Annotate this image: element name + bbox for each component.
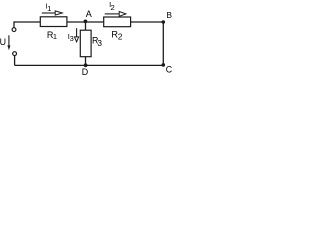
terminal circle lower	[13, 52, 17, 56]
resistor R1	[40, 17, 67, 27]
wire top-right segment	[131, 21, 164, 23]
node D junction dot	[84, 63, 88, 67]
node B junction dot	[162, 20, 166, 24]
wire top-middle segment	[67, 21, 104, 23]
terminal circle upper	[12, 28, 16, 32]
svg-text:C: C	[166, 65, 173, 75]
current arrow I3	[75, 28, 79, 42]
resistor R2	[104, 17, 131, 27]
svg-text:3: 3	[97, 38, 102, 48]
node C junction dot	[162, 63, 166, 67]
wire right vertical	[162, 22, 164, 65]
current arrow I1	[42, 11, 63, 15]
wire top-left segment	[14, 21, 40, 23]
wire bottom	[15, 64, 164, 66]
wire left lower stub	[14, 56, 16, 66]
wire node A to R3	[85, 22, 87, 30]
wire R3 to node D	[85, 57, 87, 66]
svg-text:1: 1	[53, 32, 57, 41]
svg-text:2: 2	[111, 3, 115, 12]
current arrow I2	[105, 12, 126, 17]
wire left upper stub	[13, 21, 15, 27]
svg-text:1: 1	[47, 4, 51, 13]
svg-text:A: A	[86, 9, 92, 19]
svg-text:U: U	[0, 37, 6, 47]
svg-text:B: B	[167, 11, 173, 20]
svg-text:3: 3	[70, 34, 74, 43]
svg-text:D: D	[82, 67, 88, 77]
resistor R3	[80, 30, 91, 57]
svg-text:2: 2	[118, 32, 123, 41]
node A junction dot	[84, 20, 88, 24]
voltage arrow U	[7, 35, 10, 50]
